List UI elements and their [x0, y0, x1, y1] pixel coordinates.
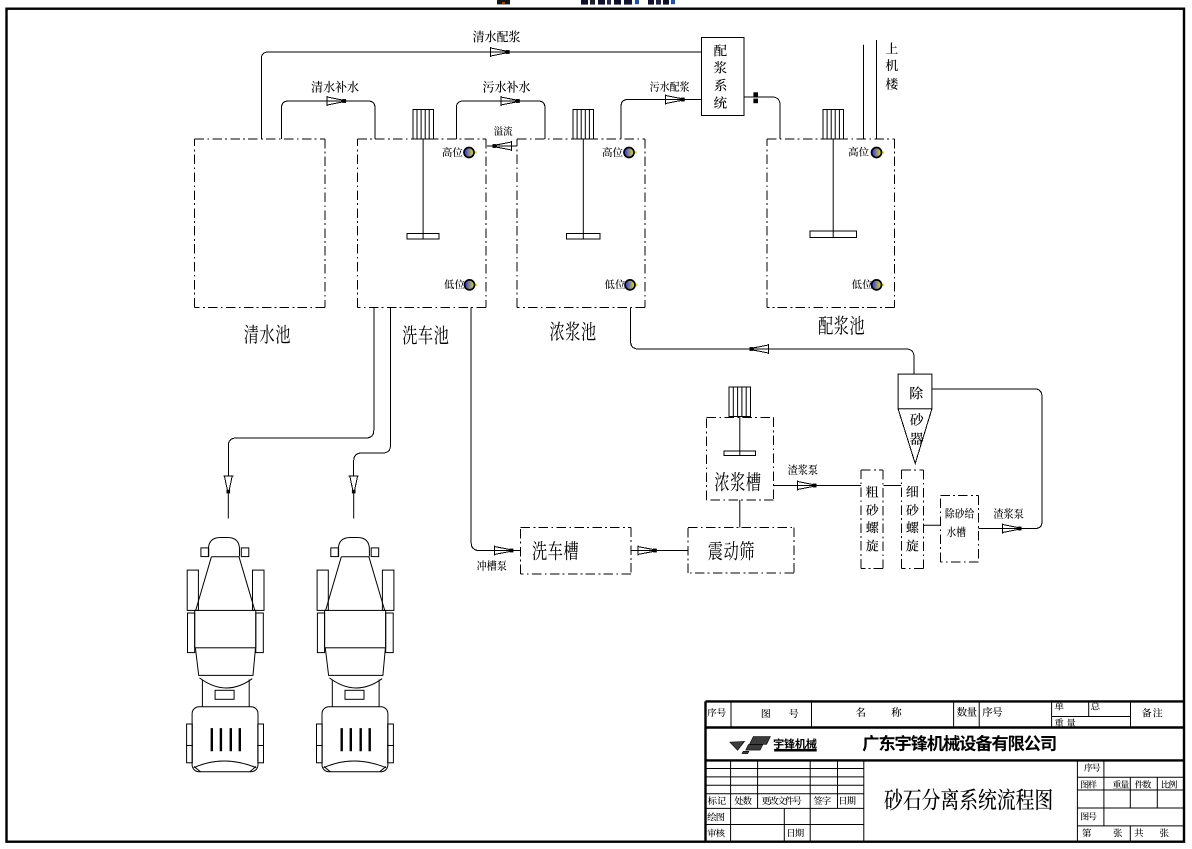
pump arrow on 清水补水 line	[327, 96, 343, 106]
title block label 备注	[1142, 708, 1151, 717]
pipe: 浓浆槽 right to 渣浆泵 to 粗砂螺旋	[774, 485, 862, 487]
label 序号 3	[1084, 763, 1092, 771]
label 洗车池	[403, 325, 417, 344]
arrow on 溢流 line pointing left	[495, 141, 511, 151]
label 浓浆池	[550, 321, 564, 341]
label 污水配浆	[650, 81, 659, 91]
agitator shaft+impeller in 浓浆槽	[739, 417, 741, 456]
label 污水补水	[483, 81, 494, 93]
tank: 清水池 (clear water tank)	[195, 139, 326, 307]
title block label 单	[1055, 702, 1064, 711]
title block label 序号 2	[982, 707, 992, 717]
pipe 溢流: 浓浆池 to 洗车池 overflow	[487, 145, 517, 147]
pipe A: 洗车池 bottom to truck 1	[228, 307, 373, 476]
agitator shaft+impeller in 浓浆池	[582, 139, 584, 239]
label 配浆池	[819, 316, 833, 335]
agitator motor on 配浆池	[823, 109, 844, 139]
label 比例	[1162, 780, 1170, 788]
label 冲槽泵	[477, 560, 486, 571]
pipe: 洗车池 bottom to 冲槽泵 to 洗车槽	[471, 307, 521, 550]
box: 浓浆槽 (thick slurry trough)	[707, 418, 774, 500]
label 震动筛	[708, 541, 722, 560]
pipe 污水补水: 洗车池 top to 浓浆池 top	[456, 101, 545, 139]
box: 细砂螺旋 (fine sand screw)	[901, 470, 923, 569]
label 张	[1113, 828, 1122, 837]
label 洗车槽	[532, 541, 546, 560]
pump arrow on 污水配浆 line	[666, 95, 682, 105]
title block label 图	[762, 709, 770, 718]
title block (标题栏)	[706, 701, 1184, 841]
label 除砂器 vertical	[910, 387, 923, 400]
arrow on return line pointing left	[752, 344, 768, 354]
label 审核	[708, 829, 717, 838]
label 共	[1134, 828, 1143, 837]
level sensor ball high 洗车池	[474, 151, 476, 153]
pump arrow on 清水配浆 line	[491, 47, 507, 57]
drawing title 砂石分离系统流程图	[885, 789, 903, 811]
box: 粗砂螺旋 (coarse sand screw)	[861, 470, 883, 569]
label 清水补水	[311, 81, 322, 93]
title block label 名	[856, 707, 865, 717]
title block label 数量	[957, 707, 967, 717]
label 重量 2	[1113, 780, 1121, 788]
label 张 2	[1160, 828, 1169, 837]
label 清水配浆	[473, 31, 484, 43]
pump arrow on 污水补水 line	[501, 96, 517, 106]
level sensor ball high 浓浆池	[634, 151, 636, 153]
label 图号	[1081, 812, 1088, 820]
title block label 序号	[707, 708, 716, 717]
label 日期	[840, 797, 846, 805]
pump arrow 渣浆泵 left	[798, 481, 814, 491]
title block label 重量	[1055, 718, 1064, 726]
label 图样	[1081, 780, 1088, 788]
label 标记	[708, 796, 717, 805]
box: 洗车槽	[521, 527, 631, 574]
logo text 宇锋机械	[774, 738, 784, 748]
label 高位 浓浆池	[603, 147, 612, 157]
label 高位 配浆池	[849, 147, 858, 157]
label 更改文件号	[762, 796, 771, 804]
label 日期 2	[788, 829, 794, 837]
title block label 总	[1091, 702, 1100, 711]
level sensor ball high 配浆池	[882, 151, 884, 153]
pipe: 洗车槽 to 震动筛	[631, 550, 688, 552]
title block label 称	[891, 707, 901, 717]
down arrow to truck 2	[349, 476, 359, 491]
label 清水池	[244, 325, 258, 344]
box: 除砂给水槽	[940, 495, 978, 562]
agitator motor on 洗车池	[413, 109, 434, 139]
label 处数	[734, 796, 743, 805]
pipe: 细砂螺旋 to 除砂给水槽	[923, 524, 940, 526]
agitator motor on 浓浆池	[573, 109, 594, 139]
pipe: 配浆系统 right outlet to 配浆池 top, with valve	[744, 97, 780, 139]
pump arrow 冲槽泵	[494, 546, 510, 556]
tank: 洗车池 (truck wash tank)	[357, 139, 486, 307]
label 绘图	[707, 812, 716, 821]
truck 2: concrete mixer truck (top view)	[317, 538, 394, 772]
label 第	[1082, 828, 1091, 837]
label 低位 (low level) 洗车池	[444, 279, 454, 289]
label 除砂给	[946, 508, 955, 519]
valve on 配浆系统 outlet	[753, 92, 758, 97]
truck 1: concrete mixer truck (top view)	[187, 538, 264, 772]
label 签字	[814, 796, 823, 804]
pipe: 粗砂螺旋 to 细砂螺旋	[884, 485, 902, 487]
tank: 配浆池 (slurry batching tank)	[767, 139, 895, 307]
label 渣浆泵 (left)	[788, 464, 798, 475]
cyclone 除砂器 (desander)	[898, 374, 932, 409]
pipe loop: 除砂给水槽 via 渣浆泵 up to 除砂器	[932, 389, 1042, 529]
pipe 清水补水: 清水池 top to 洗车池 top	[282, 101, 376, 139]
label 渣浆泵 (right)	[994, 508, 1004, 519]
company logo 宇锋机械	[730, 737, 771, 754]
pipes 上机楼: two risers from 配浆池	[863, 45, 865, 139]
label 溢流	[494, 126, 503, 136]
label 低位 浓浆池	[605, 279, 615, 289]
level sensor ball low 浓浆池	[635, 284, 637, 286]
label 水槽	[947, 527, 956, 538]
pipe: 除砂器 overflow return to 浓浆池 bottom	[631, 307, 915, 374]
label 件数	[1135, 780, 1143, 788]
label 浓浆槽	[715, 472, 729, 492]
title block label 号	[789, 709, 798, 718]
level sensor ball low 洗车池	[475, 284, 477, 286]
label 配浆系统 vertical	[714, 44, 727, 56]
company name 广东宇锋机械设备有限公司	[863, 735, 879, 752]
label 粗砂螺旋 vertical	[866, 486, 879, 498]
agitator motor on 浓浆槽	[729, 387, 751, 417]
pump arrow 渣浆泵 right	[1003, 524, 1019, 534]
label 低位 配浆池	[852, 279, 862, 289]
label 细砂螺旋 vertical	[906, 486, 918, 498]
pipe 清水配浆: 清水池 top to 配浆系统 left	[261, 52, 701, 139]
label 高位 (high level) 洗车池	[442, 147, 451, 157]
label 上机楼 vertical	[886, 42, 898, 53]
box: 震动筛 (vibrating screen)	[688, 527, 794, 573]
cut-off toolbar text at top edge	[497, 0, 510, 4]
tank: 浓浆池 (thick slurry tank)	[517, 139, 645, 307]
pipe: 浓浆槽 down to 震动筛	[739, 500, 741, 528]
agitator shaft+impeller in 洗车池	[422, 139, 424, 239]
pipe B: 洗车池 bottom to truck 2	[354, 307, 391, 476]
level sensor ball low 配浆池	[882, 284, 884, 286]
down arrow to truck 1	[223, 476, 233, 491]
arrow 洗车槽 to 震动筛	[638, 546, 654, 556]
pipe 污水配浆: 浓浆池 top to 配浆系统 left	[621, 100, 701, 139]
box: 配浆系统 (slurry mixing system)	[701, 38, 744, 116]
agitator shaft+impeller in 配浆池	[832, 139, 834, 238]
